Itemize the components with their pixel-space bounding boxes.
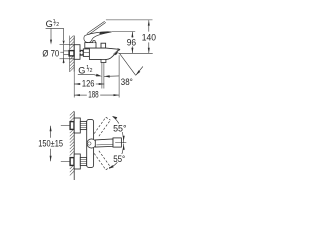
lower escutcheon (plan) — [74, 154, 80, 169]
dimension diameter 70 — [60, 44, 75, 46]
handle lever (plan) — [95, 139, 113, 147]
svg-text:150±15: 150±15 — [38, 138, 63, 148]
svg-text:G: G — [78, 65, 85, 75]
svg-text:Ø 70: Ø 70 — [42, 49, 59, 59]
handle end cap (plan) — [113, 138, 121, 147]
dimension 126 — [74, 83, 81, 85]
38-degree leader lines — [120, 54, 136, 76]
dimension 96 — [131, 32, 133, 38]
white mask under 55-degree labels — [113, 124, 128, 132]
S-union hex nut — [83, 49, 89, 57]
upper escutcheon (plan) — [74, 118, 80, 133]
svg-text:55°: 55° — [113, 154, 125, 164]
shower outlet pipe / extension lines — [101, 63, 103, 89]
shower outlet fitting — [101, 59, 106, 62]
wall surface line (plan) — [73, 112, 75, 181]
body bar (plan) — [87, 120, 94, 168]
lever dark tip wedge — [99, 32, 111, 34]
escutcheon (elevation) — [74, 45, 80, 60]
lower union nut (plan) — [80, 157, 86, 165]
handle base block — [85, 43, 96, 48]
dashed lever lower position — [94, 151, 110, 170]
raised lever position lines — [87, 21, 105, 33]
upper union nut (plan) — [80, 121, 86, 129]
lower in-wall fitting (plan) — [70, 158, 74, 166]
svg-text:126: 126 — [82, 78, 95, 88]
extension line top (140) — [106, 19, 153, 21]
dashed lever upper position — [94, 117, 110, 136]
extension line 96 top — [112, 30, 136, 32]
svg-text:G: G — [46, 19, 53, 29]
handle facet line — [97, 143, 114, 146]
extension line bottom (spout outlet) — [119, 52, 153, 54]
concealed pipe stub — [64, 50, 70, 52]
wall hatch (elevation) — [70, 36, 75, 72]
extension line 188 right — [118, 55, 120, 97]
wall edge lines (elevation) — [69, 36, 71, 72]
wall surface extension line down to dims — [73, 72, 75, 98]
cartridge dome (plan) — [87, 139, 96, 148]
dimension 140 — [148, 20, 150, 31]
svg-text:2: 2 — [56, 22, 59, 28]
faucet body (elevation) — [89, 48, 119, 59]
55-degree arc lower — [109, 144, 124, 169]
svg-text:140: 140 — [142, 33, 156, 43]
svg-text:55°: 55° — [113, 123, 127, 133]
G 1/2 bottom label underline and arrows — [78, 74, 94, 76]
svg-text:38°: 38° — [121, 77, 133, 87]
wall hatch (plan) — [70, 111, 74, 175]
dimension 188 — [74, 94, 87, 96]
spout end face inner line — [113, 50, 118, 55]
svg-text:188: 188 — [88, 89, 99, 99]
55-degree arc upper — [113, 116, 124, 143]
in-wall pipe fitting (elevation) — [69, 51, 74, 56]
G 1/2 top label underline and pointer — [46, 27, 64, 29]
svg-text:96: 96 — [127, 37, 136, 47]
handle axis reference line — [122, 142, 127, 144]
lever handle blade — [84, 32, 112, 43]
spout tip thick corner — [118, 49, 120, 51]
upper in-wall fitting (plan) — [70, 122, 74, 130]
S-union neck — [80, 51, 83, 56]
diverter knob — [101, 43, 106, 48]
lever hinge bump — [93, 41, 95, 43]
dimension 150+-15 — [61, 125, 70, 127]
svg-text:2: 2 — [90, 68, 93, 74]
